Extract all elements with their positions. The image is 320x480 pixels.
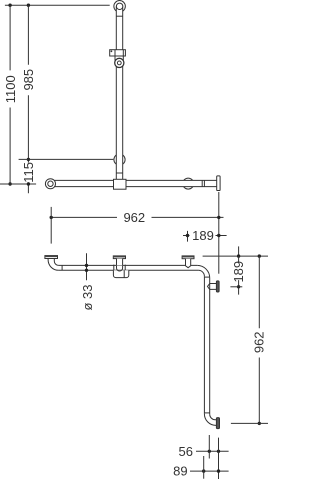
plan: corner flange neck [186, 259, 191, 268]
node dim dot 89 right [217, 469, 220, 472]
dimension line 189 vertical [238, 256, 240, 295]
svg-text:985: 985 [21, 69, 36, 91]
dimension line 1100 bottom [0, 183, 36, 185]
node dim dot 962 left [50, 216, 53, 219]
extension line right from end plate [218, 192, 220, 274]
slider block [110, 50, 126, 56]
rail top outer ring [114, 1, 126, 13]
slider neck [115, 56, 123, 60]
extension line wall bottom [218, 438, 220, 479]
svg-text:56: 56 [179, 444, 193, 459]
dimension line 962 top [51, 216, 223, 218]
node dim dot 115 bottom [27, 182, 30, 185]
tick above 189v [238, 246, 240, 256]
rail joint tick above cross [116, 172, 122, 174]
dimension line 962 vertical [258, 256, 260, 423]
dimension line bottom right [231, 422, 268, 424]
node tube edge dot bottom [85, 269, 88, 272]
dimension line 189 horizontal [183, 235, 227, 237]
svg-text:1100: 1100 [3, 75, 18, 103]
node dim dot 189v bottom [237, 285, 240, 288]
extension line 962 left [50, 207, 52, 244]
node dim dot 985 bottom [27, 158, 30, 161]
node dim dot 56 left [208, 450, 211, 453]
wall support circle right (behind bar) [183, 178, 194, 189]
svg-text:89: 89 [173, 464, 187, 479]
end plate right (elevation) [217, 176, 220, 191]
node dim dot 189h left [186, 234, 189, 237]
plan: left flange cap [45, 256, 58, 259]
plan: bottom bend [204, 414, 216, 426]
plan: joint tick corner [204, 276, 209, 278]
plan: cross fitting rail U [116, 266, 122, 271]
node dim dot 89 left [202, 469, 205, 472]
dimension line top (to rail top) [5, 4, 110, 6]
node dim dot 1100 top [8, 3, 11, 6]
slider knob dot [111, 50, 113, 52]
wall reference line [203, 255, 268, 257]
plan: bottom flange cap [216, 418, 219, 429]
plan: corner flange cap [182, 256, 194, 259]
svg-text:189: 189 [192, 228, 214, 243]
plan: cross fitting neck [117, 259, 123, 266]
plan: vertical tube edges [204, 276, 209, 414]
extension line tube edge 56 [208, 435, 210, 459]
plan: vertical tube [205, 277, 209, 413]
flange ring left (elevation) outer [45, 179, 55, 189]
svg-text:189: 189 [231, 261, 246, 283]
dimension 56 [196, 450, 229, 452]
shower rail vertical [116, 6, 122, 182]
node dim dot 1100 bottom [8, 182, 11, 185]
svg-text:ø 33: ø 33 [80, 284, 95, 310]
plan: left flange neck and bend [48, 259, 59, 271]
node dim dot 962v bottom [258, 422, 261, 425]
plan: cross fitting cap [113, 256, 125, 259]
flange ring left inner [48, 181, 53, 186]
holder ring lower (behind rail) [114, 154, 125, 165]
node dim dot 56 right [217, 450, 220, 453]
tick 189 left [187, 231, 189, 242]
joint collar ticks right [202, 180, 204, 186]
plan: cross fitting body sides [114, 265, 125, 271]
svg-text:962: 962 [252, 331, 267, 353]
plan: mid flange right [208, 284, 217, 290]
plan: cross fitting foot inner line [123, 270, 125, 277]
node dim dot wall/189v top [237, 254, 240, 257]
slider holder ring outer [115, 58, 124, 67]
node dim dot 962 right [217, 216, 220, 219]
plan: diameter leader line [86, 253, 88, 280]
plan: cross fitting foot [113, 270, 128, 277]
node dim dot wall/962v top [258, 254, 261, 257]
rail joint tick top [116, 15, 122, 17]
cross fitting block (elevation) [114, 179, 127, 189]
dimension extension 1100 vertical [9, 5, 11, 184]
tick at 189v bottom [230, 286, 242, 288]
rail top inner circle [116, 3, 122, 9]
plan: mid flange cap [216, 281, 219, 292]
plan: joint tick bottom [204, 412, 209, 414]
node dim dot 189h right [217, 234, 220, 237]
node dim dot 985 top [27, 3, 30, 6]
plan: joint tick left [61, 265, 63, 270]
dimension 89 [190, 470, 229, 472]
plan: corner bend [197, 265, 210, 278]
extension line tube edge 89 [203, 456, 205, 479]
svg-text:115: 115 [21, 162, 36, 183]
slider holder ring inner [117, 61, 121, 65]
dimension pointer 985 to holder [19, 158, 114, 160]
dimension extension 985 vertical [27, 5, 29, 193]
svg-text:962: 962 [123, 210, 145, 225]
plan: horizontal tube [58, 265, 198, 270]
node tube edge dot top [85, 264, 88, 267]
grab bar horizontal (elevation) [50, 180, 216, 186]
